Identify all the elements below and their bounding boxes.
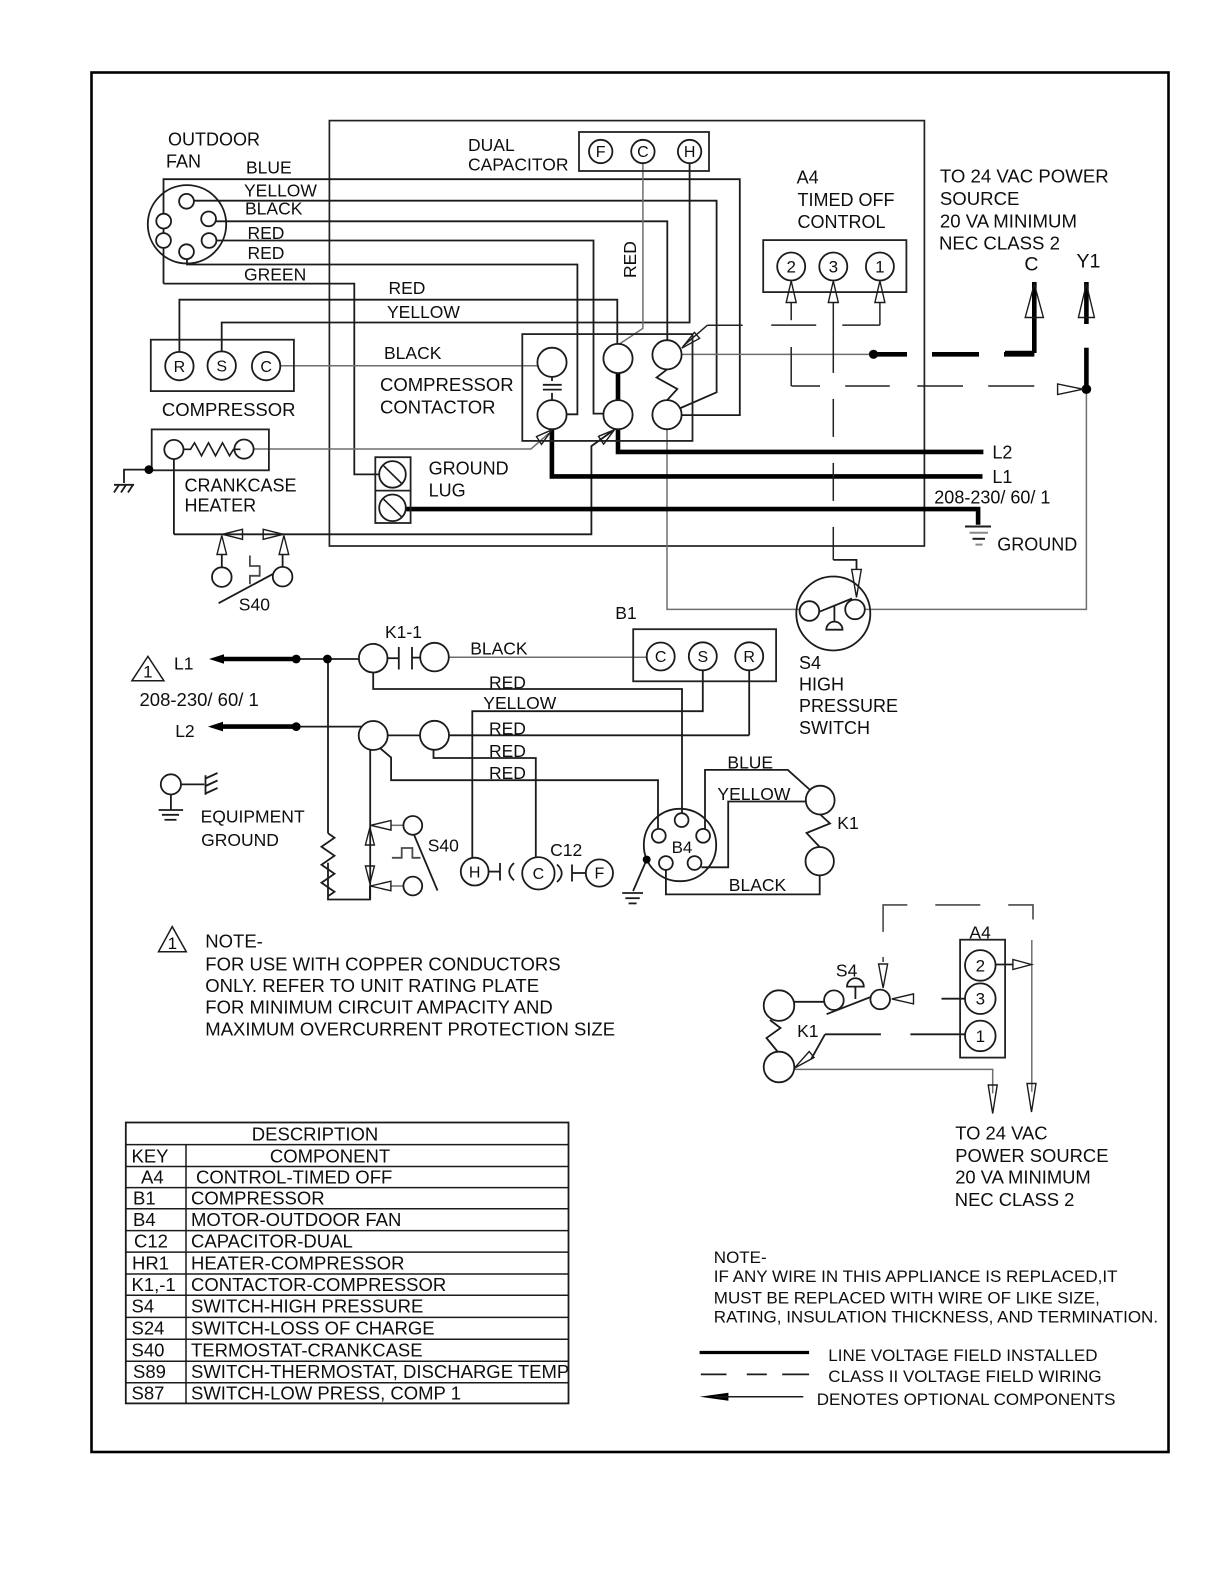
svg-text:SWITCH: SWITCH <box>799 718 870 738</box>
svg-text:RED: RED <box>248 223 285 243</box>
svg-text:C: C <box>637 144 649 161</box>
svg-text:F: F <box>595 866 605 883</box>
svg-text:CRANKCASE: CRANKCASE <box>185 476 297 496</box>
svg-text:BLACK: BLACK <box>470 639 528 659</box>
svg-text:1: 1 <box>168 934 177 953</box>
svg-text:TIMED OFF: TIMED OFF <box>798 190 895 210</box>
svg-text:K1-1: K1-1 <box>385 622 422 642</box>
svg-text:LUG: LUG <box>429 481 466 501</box>
svg-text:L1: L1 <box>992 467 1012 487</box>
svg-text:RED: RED <box>620 241 640 278</box>
svg-text:L2: L2 <box>992 442 1012 462</box>
svg-text:YELLOW: YELLOW <box>483 693 556 713</box>
svg-text:DESCRIPTION: DESCRIPTION <box>252 1124 378 1145</box>
svg-text:SWITCH-THERMOSTAT, DISCHARGE T: SWITCH-THERMOSTAT, DISCHARGE TEMP <box>191 1361 569 1382</box>
svg-text:BLACK: BLACK <box>729 875 787 895</box>
svg-text:MUST BE REPLACED WITH WIRE OF: MUST BE REPLACED WITH WIRE OF LIKE SIZE, <box>714 1288 1100 1307</box>
svg-text:S87: S87 <box>132 1383 165 1404</box>
svg-text:K1: K1 <box>797 1021 818 1041</box>
svg-text:HR1: HR1 <box>132 1253 169 1274</box>
svg-text:ONLY. REFER TO UNIT RATING PLA: ONLY. REFER TO UNIT RATING PLATE <box>205 975 539 996</box>
svg-text:R: R <box>174 359 186 376</box>
svg-text:S4: S4 <box>132 1296 155 1317</box>
svg-text:YELLOW: YELLOW <box>244 180 317 200</box>
svg-text:2: 2 <box>976 956 985 975</box>
svg-text:C12: C12 <box>550 840 582 860</box>
svg-text:GROUND: GROUND <box>429 458 509 478</box>
svg-text:208-230/ 60/ 1: 208-230/ 60/ 1 <box>934 487 1050 507</box>
svg-text:NOTE-: NOTE- <box>205 930 263 951</box>
svg-text:H: H <box>684 144 696 161</box>
svg-text:RED: RED <box>248 243 285 263</box>
svg-text:B4: B4 <box>133 1209 156 1230</box>
svg-text:B1: B1 <box>133 1188 156 1209</box>
svg-text:A4: A4 <box>969 923 991 943</box>
svg-text:SWITCH-LOSS OF CHARGE: SWITCH-LOSS OF CHARGE <box>191 1318 435 1339</box>
svg-text:BLUE: BLUE <box>727 753 773 773</box>
svg-text:TO 24 VAC POWER: TO 24 VAC POWER <box>940 165 1109 186</box>
svg-text:CAPACITOR: CAPACITOR <box>468 154 568 174</box>
svg-text:FAN: FAN <box>166 152 201 172</box>
svg-text:20 VA MINIMUM: 20 VA MINIMUM <box>955 1167 1091 1188</box>
svg-text:3: 3 <box>976 990 985 1009</box>
svg-text:GREEN: GREEN <box>244 265 306 285</box>
svg-text:BLUE: BLUE <box>246 158 292 178</box>
svg-text:C: C <box>655 649 667 666</box>
svg-text:208-230/ 60/ 1: 208-230/ 60/ 1 <box>140 689 259 710</box>
svg-text:COMPRESSOR: COMPRESSOR <box>162 399 296 420</box>
svg-text:DUAL: DUAL <box>468 135 515 155</box>
svg-text:S89: S89 <box>133 1361 166 1382</box>
svg-text:BLACK: BLACK <box>384 343 442 363</box>
svg-text:H: H <box>469 864 481 881</box>
svg-text:LINE VOLTAGE FIELD INSTALLED: LINE VOLTAGE FIELD INSTALLED <box>828 1346 1097 1365</box>
svg-text:CAPACITOR-DUAL: CAPACITOR-DUAL <box>191 1231 353 1252</box>
svg-text:B1: B1 <box>615 603 636 623</box>
svg-text:NOTE-: NOTE- <box>714 1248 767 1267</box>
svg-text:COMPONENT: COMPONENT <box>270 1146 390 1167</box>
svg-text:K1,-1: K1,-1 <box>132 1274 176 1295</box>
svg-text:RED: RED <box>389 278 426 298</box>
svg-text:L2: L2 <box>175 721 194 741</box>
svg-text:CONTACTOR: CONTACTOR <box>380 396 495 417</box>
svg-text:3: 3 <box>829 258 838 277</box>
svg-text:COMPRESSOR: COMPRESSOR <box>191 1188 325 1209</box>
svg-text:L1: L1 <box>174 654 193 674</box>
svg-text:MAXIMUM OVERCURRENT PROTECTION: MAXIMUM OVERCURRENT PROTECTION SIZE <box>205 1019 615 1040</box>
svg-text:A4: A4 <box>797 168 819 188</box>
svg-text:NEC CLASS 2: NEC CLASS 2 <box>955 1189 1075 1210</box>
svg-text:TO 24 VAC: TO 24 VAC <box>955 1123 1047 1144</box>
svg-text:SWITCH-HIGH PRESSURE: SWITCH-HIGH PRESSURE <box>191 1296 423 1317</box>
svg-text:S: S <box>216 358 227 375</box>
svg-text:S40: S40 <box>239 594 270 614</box>
svg-text:YELLOW: YELLOW <box>387 302 460 322</box>
svg-text:20 VA MINIMUM: 20 VA MINIMUM <box>940 210 1077 231</box>
svg-text:RED: RED <box>489 741 526 761</box>
svg-text:2: 2 <box>786 258 795 277</box>
svg-text:S40: S40 <box>132 1340 165 1361</box>
svg-text:S24: S24 <box>132 1318 165 1339</box>
svg-text:SOURCE: SOURCE <box>940 188 1020 209</box>
svg-text:DENOTES OPTIONAL COMPONENTS: DENOTES OPTIONAL COMPONENTS <box>817 1390 1116 1409</box>
svg-text:CONTROL-TIMED OFF: CONTROL-TIMED OFF <box>196 1167 392 1188</box>
svg-text:1: 1 <box>143 662 152 681</box>
svg-text:FOR MINIMUM CIRCUIT AMPACITY A: FOR MINIMUM CIRCUIT AMPACITY AND <box>205 997 552 1018</box>
svg-text:C: C <box>260 359 272 376</box>
svg-text:BLACK: BLACK <box>245 199 303 219</box>
svg-text:1: 1 <box>875 258 884 277</box>
svg-text:RATING, INSULATION THICKNESS,: RATING, INSULATION THICKNESS, AND TERMIN… <box>714 1308 1158 1327</box>
svg-text:GROUND: GROUND <box>201 830 279 850</box>
svg-text:NEC CLASS 2: NEC CLASS 2 <box>939 233 1060 254</box>
svg-text:CONTACTOR-COMPRESSOR: CONTACTOR-COMPRESSOR <box>191 1274 446 1295</box>
svg-text:C12: C12 <box>134 1231 168 1252</box>
svg-text:HEATER: HEATER <box>185 496 257 516</box>
svg-text:K1: K1 <box>837 813 858 833</box>
svg-text:HEATER-COMPRESSOR: HEATER-COMPRESSOR <box>191 1253 404 1274</box>
svg-text:CONTROL: CONTROL <box>798 212 886 232</box>
svg-text:Y1: Y1 <box>1077 251 1101 273</box>
svg-text:RED: RED <box>489 672 526 692</box>
svg-text:OUTDOOR: OUTDOOR <box>168 130 260 150</box>
svg-text:C: C <box>533 866 545 883</box>
svg-text:A4: A4 <box>141 1167 164 1188</box>
svg-text:F: F <box>596 144 606 161</box>
svg-text:C: C <box>1024 253 1038 275</box>
svg-text:PRESSURE: PRESSURE <box>799 696 898 716</box>
svg-text:IF ANY WIRE IN THIS APPLIANCE: IF ANY WIRE IN THIS APPLIANCE IS REPLACE… <box>714 1267 1118 1286</box>
svg-text:KEY: KEY <box>132 1146 169 1167</box>
svg-text:RED: RED <box>489 763 526 783</box>
svg-text:S: S <box>697 649 708 666</box>
svg-text:1: 1 <box>976 1027 985 1046</box>
svg-text:CLASS II VOLTAGE FIELD WIRING: CLASS II VOLTAGE FIELD WIRING <box>828 1367 1101 1386</box>
svg-text:SWITCH-LOW PRESS, COMP 1: SWITCH-LOW PRESS, COMP 1 <box>191 1383 461 1404</box>
svg-text:S4: S4 <box>836 961 858 981</box>
svg-text:S4: S4 <box>799 653 821 673</box>
svg-text:MOTOR-OUTDOOR FAN: MOTOR-OUTDOOR FAN <box>191 1209 401 1230</box>
svg-text:S40: S40 <box>428 836 459 856</box>
svg-text:YELLOW: YELLOW <box>717 784 790 804</box>
svg-text:COMPRESSOR: COMPRESSOR <box>380 374 514 395</box>
svg-text:R: R <box>743 649 755 666</box>
svg-text:FOR USE WITH COPPER CONDUCTORS: FOR USE WITH COPPER CONDUCTORS <box>205 954 560 975</box>
svg-text:TERMOSTAT-CRANKCASE: TERMOSTAT-CRANKCASE <box>191 1340 423 1361</box>
svg-text:EQUIPMENT: EQUIPMENT <box>201 806 305 826</box>
svg-text:HIGH: HIGH <box>799 675 844 695</box>
svg-text:RED: RED <box>489 719 526 739</box>
svg-text:POWER SOURCE: POWER SOURCE <box>955 1145 1108 1166</box>
svg-text:GROUND: GROUND <box>997 535 1077 555</box>
svg-text:B4: B4 <box>672 838 693 857</box>
